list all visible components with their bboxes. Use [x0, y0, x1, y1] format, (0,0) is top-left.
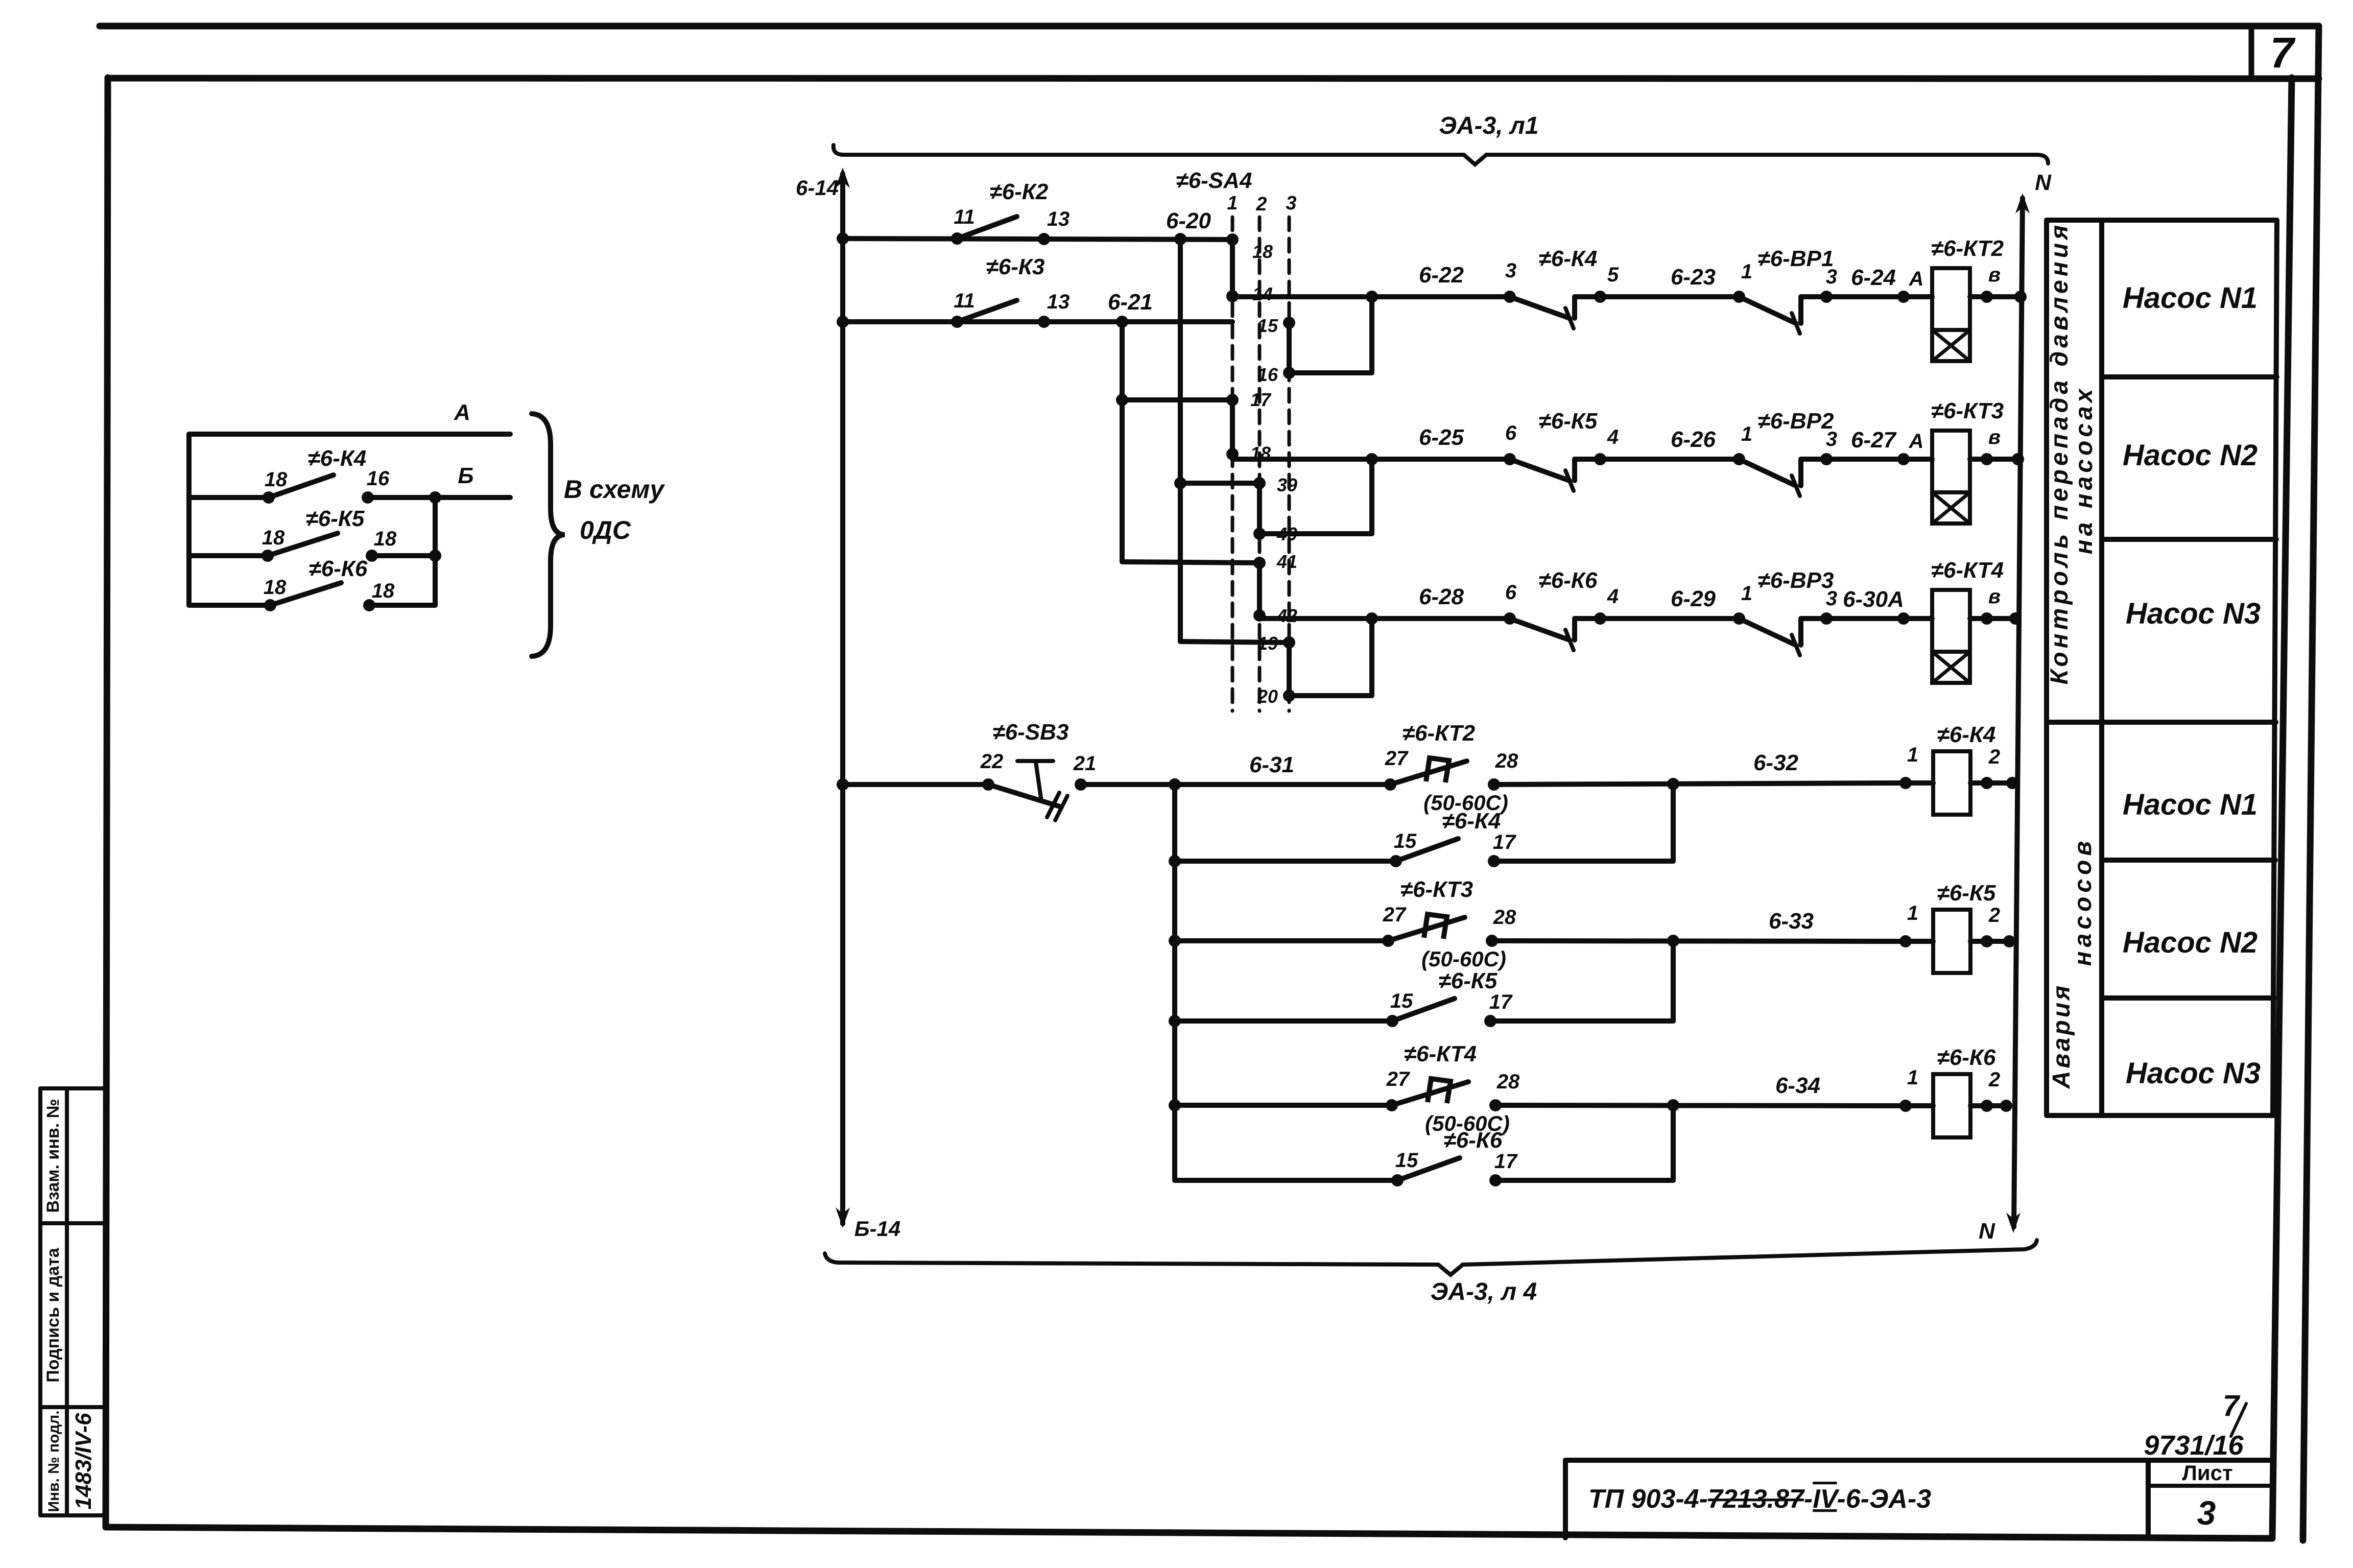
svg-text:6-30А: 6-30А	[1843, 587, 1904, 612]
time contact ≠6-КТ2 27-28	[1384, 778, 1396, 791]
relay coil ≠6-К6	[1899, 1100, 1912, 1112]
svg-text:6-25: 6-25	[1419, 425, 1464, 450]
title block box	[1565, 1458, 2272, 1463]
wire 6-23	[1575, 294, 1739, 299]
svg-text:3: 3	[1826, 266, 1837, 288]
svg-text:16: 16	[1257, 364, 1278, 385]
svg-text:≠6-SВ3: ≠6-SВ3	[993, 720, 1069, 745]
svg-text:≠6-ВР1: ≠6-ВР1	[1758, 246, 1834, 271]
svg-text:А: А	[454, 400, 470, 425]
svg-text:≠6-К4: ≠6-К4	[308, 446, 367, 471]
top cable bracket EA-3 l1	[834, 145, 2048, 164]
svg-text:6-22: 6-22	[1419, 263, 1464, 288]
svg-text:9731/16: 9731/16	[2144, 1430, 2244, 1461]
time contact ≠6-КТ3 27-28	[1382, 935, 1394, 947]
svg-text:20: 20	[1257, 686, 1278, 707]
svg-text:11: 11	[954, 206, 975, 228]
svg-text:16: 16	[367, 467, 390, 490]
wire 6-29	[1575, 616, 1739, 621]
button SB3	[982, 778, 994, 791]
svg-text:6-31: 6-31	[1249, 752, 1294, 777]
SA4 contact segment 41-42	[1257, 563, 1262, 615]
auxiliary contact ≠6-К5 15-17	[1386, 1015, 1398, 1027]
junction riser K6 bypass	[1667, 1099, 1679, 1111]
svg-text:6-34: 6-34	[1775, 1073, 1820, 1098]
ODS row1 contact K4 18-16	[189, 495, 269, 500]
svg-text:18: 18	[1252, 241, 1273, 262]
svg-text:21: 21	[1073, 752, 1097, 775]
wire 6-30А	[1801, 616, 1932, 621]
svg-text:17: 17	[1489, 991, 1513, 1013]
wire row 6-20 from bus	[843, 239, 1232, 240]
svg-text:N: N	[1979, 1219, 1995, 1244]
svg-text:≠6-К4: ≠6-К4	[1539, 246, 1598, 271]
svg-text:2: 2	[1988, 904, 2000, 926]
svg-text:≠6-ВР2: ≠6-ВР2	[1758, 409, 1834, 434]
relay coil ≠6-К5	[1899, 935, 1912, 947]
svg-text:3: 3	[1286, 193, 1296, 214]
bottom cable bracket EA-3 l4	[825, 1240, 2037, 1275]
svg-text:≠6-КТ4: ≠6-КТ4	[1404, 1041, 1477, 1066]
svg-text:22: 22	[980, 750, 1004, 773]
contact K2 11-13	[951, 232, 963, 245]
svg-text:≠6-К4: ≠6-К4	[1937, 722, 1996, 747]
SA4 dashed line 2	[1258, 217, 1262, 711]
SA4 dashed line 1	[1231, 217, 1234, 711]
svg-text:≠6-К6: ≠6-К6	[1444, 1128, 1503, 1153]
SA4 contact segment 15-16	[1287, 323, 1292, 373]
bypass K4 15-17 row	[1175, 859, 1396, 864]
svg-text:(50-60C): (50-60C)	[1421, 947, 1506, 971]
svg-text:0ДС: 0ДС	[580, 516, 631, 544]
junction on N bus	[2014, 291, 2027, 303]
wire coil to N bus	[1970, 616, 2015, 621]
svg-text:19: 19	[1257, 633, 1278, 654]
svg-text:Б-14: Б-14	[854, 1217, 900, 1241]
svg-text:1483/IV-6: 1483/IV-6	[71, 1413, 96, 1510]
svg-text:5: 5	[1607, 264, 1619, 286]
wire 6-27	[1801, 457, 1932, 462]
signal table grid	[2044, 220, 2049, 1115]
feeder vertical from 6-21 junction	[1120, 322, 1125, 562]
svg-text:≠6-КТ4: ≠6-КТ4	[1931, 558, 2004, 583]
svg-text:≠6-К5: ≠6-К5	[1539, 409, 1598, 434]
svg-text:41: 41	[1276, 551, 1297, 572]
svg-text:6-14: 6-14	[796, 176, 839, 200]
svg-text:Насос N2: Насос N2	[2123, 926, 2257, 959]
wire 6-34	[1495, 1105, 1906, 1106]
svg-text:42: 42	[1276, 605, 1297, 626]
svg-text:17: 17	[1250, 389, 1272, 410]
svg-text:3: 3	[1826, 428, 1837, 450]
svg-text:13: 13	[1047, 291, 1070, 313]
svg-text:ЭА-3, л1: ЭА-3, л1	[1439, 112, 1538, 139]
wire 6-28 row	[1259, 616, 1510, 621]
svg-text:6-26: 6-26	[1671, 427, 1716, 452]
svg-text:6-29: 6-29	[1671, 586, 1716, 611]
svg-text:Б: Б	[458, 463, 473, 488]
svg-text:27: 27	[1386, 1068, 1410, 1090]
contact ≠6-К5	[1504, 453, 1516, 465]
feeder vertical from 6-20 junction	[1178, 239, 1183, 640]
svg-text:18: 18	[262, 527, 285, 549]
svg-text:27: 27	[1385, 747, 1409, 770]
svg-text:≠6-КТ3: ≠6-КТ3	[1931, 398, 2004, 423]
ODS junction vertical	[429, 491, 441, 504]
svg-text:2: 2	[1255, 194, 1267, 215]
junction riser K4 bypass	[1667, 778, 1679, 790]
svg-text:1: 1	[1907, 902, 1918, 924]
SA4 contact segment 19-20	[1287, 643, 1292, 696]
feeder branch to SA4 terminal 39	[1174, 477, 1186, 489]
auxiliary contact ≠6-К4 15-17	[1390, 855, 1402, 867]
svg-text:18: 18	[265, 468, 288, 491]
svg-text:на насосах: на насосах	[2071, 386, 2098, 555]
svg-text:3: 3	[1505, 259, 1516, 282]
time relay coil ≠6-КТ3	[1932, 431, 1970, 492]
ODS block left vertical	[186, 434, 192, 605]
svg-text:15: 15	[1394, 830, 1417, 852]
svg-text:6-23: 6-23	[1671, 265, 1716, 290]
wire 6-33	[1492, 941, 1906, 941]
svg-text:6-32: 6-32	[1753, 750, 1799, 775]
time relay coil ≠6-КТ4	[1932, 590, 1970, 652]
wire 6-32	[1494, 783, 1906, 785]
svg-text:ЭА-3, л 4: ЭА-3, л 4	[1431, 1278, 1537, 1305]
svg-text:≠6-К6: ≠6-К6	[1937, 1045, 1996, 1070]
junction riser K5 bypass	[1667, 935, 1679, 947]
svg-text:7: 7	[2270, 29, 2296, 77]
relay coil ≠6-К4	[1899, 777, 1912, 789]
bus 6-14 vertical	[840, 174, 845, 1224]
svg-text:≠6-КТ2: ≠6-КТ2	[1931, 236, 2004, 261]
wire KT3 row from feeder	[1175, 938, 1388, 943]
svg-text:14: 14	[1252, 283, 1273, 304]
svg-text:1: 1	[1741, 423, 1752, 445]
wire row 6-21 from bus	[843, 319, 1232, 324]
wire 6-26	[1575, 457, 1739, 462]
bypass riser row 2	[1369, 459, 1374, 534]
svg-text:≠6-К2: ≠6-К2	[990, 179, 1049, 204]
svg-text:6: 6	[1505, 581, 1517, 604]
wire coil to N bus	[1970, 294, 2021, 299]
svg-text:1: 1	[1907, 744, 1918, 766]
svg-text:насосов: насосов	[2070, 837, 2097, 966]
bypass K6 15-17 row	[1175, 1178, 1397, 1183]
contact ≠6-К6	[1504, 612, 1516, 625]
wire coil to N bus	[1970, 457, 2018, 462]
svg-text:7: 7	[2223, 1389, 2241, 1422]
svg-text:1: 1	[1907, 1066, 1918, 1089]
svg-text:15: 15	[1395, 1149, 1418, 1172]
svg-text:Взам. инв. №: Взам. инв. №	[43, 1099, 63, 1213]
svg-text:6-21: 6-21	[1108, 290, 1153, 315]
svg-text:≠6-К5: ≠6-К5	[1937, 881, 1996, 906]
drawing frame	[108, 78, 2319, 79]
svg-text:в: в	[1988, 426, 2001, 448]
svg-text:6-33: 6-33	[1769, 909, 1814, 934]
svg-text:28: 28	[1495, 750, 1518, 772]
feeder branch to SA4 terminal 19	[1178, 640, 1183, 642]
svg-text:Насос N2: Насос N2	[2123, 439, 2257, 472]
ODS row3 contact K6 18-18	[189, 603, 270, 608]
sheet right border line	[2303, 26, 2319, 1540]
junction lower feeder	[1169, 778, 1181, 791]
junction dot 6-20 / feeder A	[1174, 233, 1186, 245]
svg-text:Насос N3: Насос N3	[2126, 1057, 2261, 1090]
svg-text:2: 2	[1988, 1068, 2000, 1091]
svg-text:4: 4	[1607, 585, 1619, 608]
contact ≠6-ВР3	[1733, 612, 1745, 625]
SA4 contact segment 39-40	[1257, 483, 1262, 534]
svg-text:18: 18	[264, 576, 287, 599]
bypass riser row 1	[1369, 297, 1374, 373]
svg-text:≠6-КТ2: ≠6-КТ2	[1403, 721, 1476, 746]
svg-text:Насос N3: Насос N3	[2126, 597, 2261, 630]
contact ≠6-ВР2	[1733, 453, 1745, 465]
junction on N bus	[2009, 612, 2022, 625]
svg-text:6-24: 6-24	[1851, 265, 1896, 290]
svg-text:в: в	[1988, 585, 2001, 608]
svg-text:Инв. № подл.: Инв. № подл.	[45, 1410, 62, 1512]
wire 6-25 row	[1232, 457, 1510, 462]
svg-text:В схему: В схему	[564, 475, 666, 504]
svg-text:N: N	[2035, 170, 2052, 195]
svg-text:ТП 903-4-7213.87-IV-6-ЭА-3: ТП 903-4-7213.87-IV-6-ЭА-3	[1588, 1484, 1931, 1514]
ODS wire A	[189, 432, 510, 437]
svg-text:≠6-К6: ≠6-К6	[1539, 568, 1598, 593]
svg-text:А: А	[1909, 268, 1924, 290]
SA4 contact segment 17-18	[1230, 400, 1235, 454]
svg-text:28: 28	[1493, 906, 1516, 929]
junction to bypass riser	[1366, 453, 1378, 465]
svg-text:1: 1	[1227, 193, 1238, 214]
svg-text:≠6-К5: ≠6-К5	[306, 506, 365, 531]
bus N vertical	[2014, 198, 2023, 1227]
ODS row2 contact K5 18-18	[189, 553, 268, 558]
stamp boxes left margin	[38, 1088, 42, 1515]
auxiliary contact ≠6-К6 15-17	[1391, 1174, 1404, 1186]
svg-text:6-28: 6-28	[1419, 584, 1464, 609]
svg-text:≠6-SA4: ≠6-SA4	[1176, 168, 1252, 193]
SA4 contact segment 18-14	[1230, 240, 1235, 296]
ODS brace	[532, 414, 565, 656]
contact ≠6-К4	[1504, 291, 1516, 303]
contact ≠6-ВР1	[1733, 291, 1745, 303]
bypass K5 15-17 row	[1175, 1018, 1392, 1024]
svg-text:13: 13	[1047, 208, 1070, 230]
svg-text:в: в	[1988, 264, 2001, 286]
wire 6-22 row	[1232, 294, 1510, 299]
sheet top border line	[100, 23, 2319, 30]
SA4 dashed line 3	[1288, 217, 1291, 711]
svg-text:≠6-КТ3: ≠6-КТ3	[1400, 877, 1473, 902]
svg-text:6-20: 6-20	[1166, 208, 1211, 233]
svg-text:15: 15	[1257, 315, 1278, 336]
wire 6-24	[1801, 294, 1932, 299]
svg-text:Лист: Лист	[2182, 1461, 2232, 1485]
svg-text:3: 3	[1826, 587, 1837, 610]
svg-text:27: 27	[1383, 904, 1407, 926]
svg-text:1: 1	[1741, 582, 1752, 605]
svg-text:Подпись и дата: Подпись и дата	[43, 1247, 63, 1383]
svg-text:Авария: Авария	[2048, 983, 2075, 1089]
svg-text:Насос N1: Насос N1	[2123, 281, 2257, 315]
time relay coil ≠6-КТ2	[1932, 268, 1970, 330]
svg-text:17: 17	[1493, 831, 1516, 853]
svg-text:Насос N1: Насос N1	[2123, 788, 2257, 821]
junction to bypass riser	[1366, 291, 1378, 303]
svg-text:28: 28	[1496, 1071, 1520, 1093]
feeder branch to SA4 terminal 17	[1116, 394, 1128, 406]
svg-text:39: 39	[1277, 474, 1297, 495]
wire KT4 row from feeder	[1175, 1103, 1392, 1108]
junction to bypass riser	[1366, 612, 1378, 625]
junction bus to lower section	[837, 778, 849, 791]
svg-text:≠6-К6: ≠6-К6	[309, 556, 368, 581]
feeder branch to SA4 terminal 41	[1122, 562, 1259, 563]
svg-text:А: А	[1909, 430, 1924, 453]
svg-text:4: 4	[1607, 426, 1619, 448]
wire SB3 row	[843, 782, 988, 787]
svg-text:Контроль перепада давления: Контроль перепада давления	[2046, 222, 2073, 685]
contact K3 11-13	[951, 316, 963, 328]
svg-text:6: 6	[1505, 422, 1517, 444]
page number box 7	[2249, 26, 2254, 79]
svg-text:11: 11	[954, 290, 975, 312]
svg-text:18: 18	[374, 528, 397, 550]
svg-text:≠6-ВР3: ≠6-ВР3	[1758, 568, 1834, 593]
junction dot 6-21 / feeder B	[1116, 316, 1128, 328]
svg-text:18: 18	[372, 580, 395, 602]
svg-text:≠6-К4: ≠6-К4	[1442, 809, 1501, 834]
junction on N bus	[2012, 453, 2024, 465]
svg-text:1: 1	[1741, 260, 1752, 283]
svg-text:≠6-К3: ≠6-К3	[986, 254, 1045, 279]
svg-text:17: 17	[1494, 1150, 1518, 1173]
svg-text:≠6-К5: ≠6-К5	[1439, 968, 1498, 993]
bypass riser row 3	[1369, 619, 1374, 696]
time contact ≠6-КТ4 27-28	[1386, 1099, 1398, 1111]
svg-text:15: 15	[1390, 990, 1413, 1012]
svg-text:3: 3	[2197, 1494, 2216, 1532]
lower feeder vertical	[1172, 785, 1177, 1180]
svg-text:2: 2	[1988, 746, 2000, 768]
svg-text:6-27: 6-27	[1851, 427, 1897, 453]
wire 6-31	[1081, 782, 1390, 787]
